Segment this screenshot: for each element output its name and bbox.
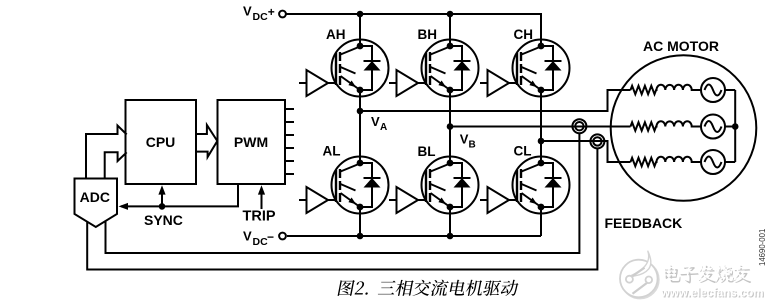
svg-text:CL: CL <box>514 144 532 159</box>
svg-text:B: B <box>469 139 476 150</box>
svg-text:CPU: CPU <box>146 134 176 150</box>
svg-text:CH: CH <box>514 27 534 42</box>
svg-text:www.elecfans.com: www.elecfans.com <box>660 287 763 299</box>
svg-text:AH: AH <box>326 27 346 42</box>
svg-text:DC: DC <box>253 11 269 23</box>
svg-text:14690-001: 14690-001 <box>758 229 767 266</box>
svg-text:+: + <box>268 5 275 19</box>
svg-text:AC MOTOR: AC MOTOR <box>643 38 719 54</box>
svg-text:TRIP: TRIP <box>243 208 276 224</box>
svg-text:ADC: ADC <box>80 189 110 205</box>
svg-text:V: V <box>243 228 252 243</box>
svg-text:V: V <box>371 114 380 129</box>
svg-text:BH: BH <box>418 27 438 42</box>
svg-text:DC: DC <box>253 236 269 248</box>
svg-text:V: V <box>460 131 469 146</box>
svg-text:PWM: PWM <box>234 134 268 150</box>
svg-text:A: A <box>380 122 387 133</box>
svg-text:BL: BL <box>418 144 436 159</box>
svg-text:V: V <box>243 3 252 18</box>
svg-text:AL: AL <box>323 144 341 159</box>
svg-text:SYNC: SYNC <box>144 212 183 228</box>
svg-text:−: − <box>267 230 274 244</box>
svg-text:FEEDBACK: FEEDBACK <box>605 215 683 231</box>
